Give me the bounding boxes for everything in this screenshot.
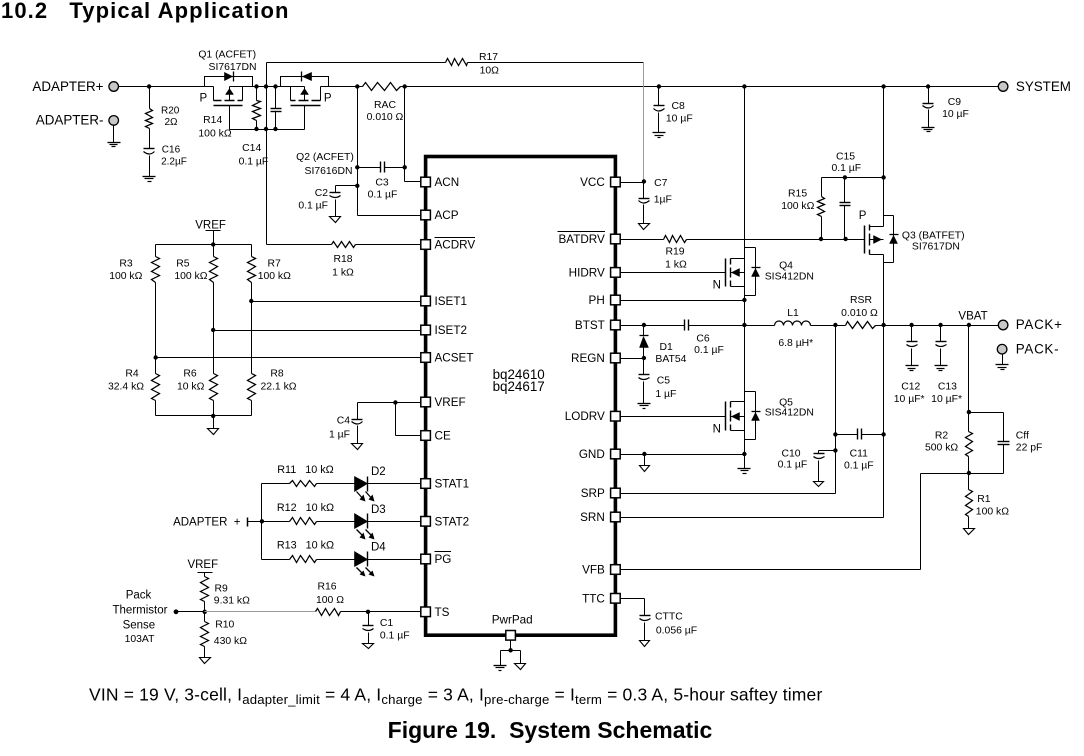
svg-text:ADAPTER+: ADAPTER+ <box>32 79 103 94</box>
svg-text:R10: R10 <box>215 620 234 631</box>
svg-text:0.1 µF: 0.1 µF <box>778 460 808 471</box>
IC pin CE <box>421 430 451 443</box>
svg-text:ADAPTER +: ADAPTER + <box>173 516 241 528</box>
transistor Q5 SIS412DN <box>713 392 814 440</box>
svg-text:100 kΩ: 100 kΩ <box>109 271 142 282</box>
wire rail RAC to SYSTEM <box>401 84 999 88</box>
section title <box>1 0 290 23</box>
schematic conditions caption <box>89 685 822 708</box>
svg-text:L1: L1 <box>787 308 799 319</box>
wire TS net <box>177 610 421 614</box>
svg-text:ACN: ACN <box>435 176 460 189</box>
transistor Q2 (ACFET) SI7616DN <box>281 72 354 178</box>
svg-text:P: P <box>199 93 207 105</box>
capacitor C1 <box>363 612 410 644</box>
resistor R14 <box>198 87 260 140</box>
svg-text:SRP: SRP <box>581 487 605 500</box>
wire ACDRV vertical from gate line <box>266 63 268 245</box>
capacitor C15 <box>831 151 861 239</box>
resistor R12 10 kΩ <box>262 502 355 525</box>
svg-text:VFB: VFB <box>582 564 605 577</box>
inductor L1 6.8uH <box>745 308 846 349</box>
resistor R20 <box>146 87 180 149</box>
svg-text:C2: C2 <box>315 188 329 199</box>
capacitor C9 <box>923 87 969 128</box>
resistor R9 <box>201 577 251 612</box>
wire C15 top link <box>822 175 886 179</box>
wire REGN net <box>621 356 647 360</box>
svg-text:R6: R6 <box>183 369 197 380</box>
IC pin PG <box>421 552 452 567</box>
svg-text:R1: R1 <box>977 494 991 505</box>
svg-text:Cff: Cff <box>1016 431 1029 442</box>
svg-text:C13: C13 <box>938 382 957 393</box>
wire ADAPTER+ rail to Q1 <box>119 84 214 88</box>
svg-text:Q2 (ACFET): Q2 (ACFET) <box>296 152 354 163</box>
svg-text:VCC: VCC <box>580 176 605 189</box>
ground at PwrPad (signal) <box>515 664 526 670</box>
svg-text:6.8 µH*: 6.8 µH* <box>778 338 813 349</box>
svg-text:C14: C14 <box>242 143 261 154</box>
wire HIDRV net <box>621 272 726 274</box>
capacitor C14 <box>239 87 282 168</box>
wire BATDRV net <box>621 237 865 241</box>
svg-text:Q3 (BATFET): Q3 (BATFET) <box>902 230 965 241</box>
wire divider bottom bus <box>156 414 252 429</box>
svg-text:STAT2: STAT2 <box>435 515 470 528</box>
svg-text:Q1 (ACFET): Q1 (ACFET) <box>198 50 256 61</box>
svg-text:C7: C7 <box>654 178 668 189</box>
IC pin HIDRV <box>569 266 621 279</box>
ground at ADAPTER- <box>108 126 121 147</box>
svg-text:ACP: ACP <box>435 209 459 222</box>
capacitor Cff <box>969 413 1043 474</box>
capacitor C4 <box>329 403 363 444</box>
svg-text:Typical Application: Typical Application <box>69 0 289 23</box>
node VREF at R9 <box>187 559 218 577</box>
svg-text:C1: C1 <box>380 618 394 629</box>
figure caption <box>388 717 713 743</box>
svg-text:Thermistor: Thermistor <box>113 605 168 617</box>
IC pin VCC <box>580 176 620 189</box>
ground at C2 <box>330 217 341 223</box>
svg-text:SIS412DN: SIS412DN <box>765 271 814 282</box>
wire CE tie to VREF <box>396 403 421 436</box>
terminal PACK+ <box>998 317 1062 332</box>
resistor RAC 0.010 ohm <box>363 83 404 123</box>
IC pin ACSET <box>421 352 474 365</box>
svg-text:22 pF: 22 pF <box>1016 443 1043 454</box>
svg-text:C15: C15 <box>836 151 855 162</box>
svg-text:C12: C12 <box>901 382 920 393</box>
IC pin ACN <box>421 176 459 189</box>
capacitor C11 <box>836 429 884 472</box>
IC pin ISET2 <box>421 324 467 337</box>
svg-text:R2: R2 <box>935 431 949 442</box>
svg-text:0.1 µF: 0.1 µF <box>368 189 398 200</box>
svg-text:100 kΩ: 100 kΩ <box>976 507 1009 518</box>
LED D3 <box>355 504 421 540</box>
ground at C5 <box>638 404 651 409</box>
diode D1 BAT54 <box>640 326 687 366</box>
svg-text:1 kΩ: 1 kΩ <box>332 268 354 279</box>
node Pack Thermistor Sense <box>113 590 179 646</box>
svg-text:STAT1: STAT1 <box>435 478 470 491</box>
ground at CTTC <box>640 641 650 647</box>
svg-text:103AT: 103AT <box>125 634 155 645</box>
resistor R5 <box>174 245 217 331</box>
resistor R3 <box>109 245 159 358</box>
svg-text:100 Ω: 100 Ω <box>316 595 344 606</box>
ground at C1 <box>363 644 374 649</box>
resistor R16 <box>316 582 345 616</box>
svg-text:D2: D2 <box>371 466 386 478</box>
capacitor CTTC <box>621 599 698 641</box>
svg-text:R13 10 kΩ: R13 10 kΩ <box>277 540 334 552</box>
svg-text:1 µF: 1 µF <box>329 430 350 441</box>
svg-text:100 kΩ: 100 kΩ <box>174 271 207 282</box>
IC pin STAT2 <box>421 515 469 528</box>
svg-text:1µF: 1µF <box>654 195 672 206</box>
svg-text:VREF: VREF <box>195 219 226 231</box>
svg-text:PwrPad: PwrPad <box>492 614 533 627</box>
resistor R18 <box>267 242 421 279</box>
node VREF label <box>195 219 226 244</box>
svg-text:BATDRV: BATDRV <box>558 233 605 246</box>
resistor R13 10 kΩ <box>262 540 355 563</box>
svg-text:VREF: VREF <box>187 559 218 571</box>
wire rail Q2 to RAC <box>321 84 363 88</box>
terminal ADAPTER- <box>36 113 119 128</box>
svg-text:1 µF: 1 µF <box>655 389 676 400</box>
ground at R10 <box>200 658 211 664</box>
node VBAT <box>958 310 987 322</box>
capacitor C3 <box>358 162 405 201</box>
capacitor C16 <box>144 145 187 177</box>
svg-text:Sense: Sense <box>123 620 156 632</box>
wire LED supply bus <box>248 484 265 560</box>
wire SRP net <box>621 326 838 494</box>
svg-text:C16: C16 <box>162 145 181 156</box>
svg-text:2.2µF: 2.2µF <box>161 157 187 168</box>
IC pin TTC <box>582 592 620 605</box>
svg-text:R4: R4 <box>125 369 139 380</box>
svg-text:REGN: REGN <box>571 352 605 365</box>
resistor R4 <box>108 358 160 416</box>
svg-text:SYSTEM: SYSTEM <box>1016 79 1071 94</box>
svg-text:100 kΩ: 100 kΩ <box>258 271 291 282</box>
svg-text:SIS412DN: SIS412DN <box>765 408 814 419</box>
wire VBAT to R2 <box>967 326 971 415</box>
svg-text:10.2: 10.2 <box>1 0 48 23</box>
IC pin PwrPad <box>492 614 533 641</box>
IC pin ACP <box>421 209 459 222</box>
svg-text:SI7617DN: SI7617DN <box>209 62 257 73</box>
svg-text:SI7616DN: SI7616DN <box>305 166 353 177</box>
IC pin ISET1 <box>421 295 467 308</box>
ground at C10 <box>814 482 824 487</box>
ground at divider <box>208 429 219 435</box>
svg-text:bq24617: bq24617 <box>493 379 545 394</box>
svg-text:10 µF: 10 µF <box>942 109 969 120</box>
wire VFB net <box>621 474 969 570</box>
svg-text:10 µF*: 10 µF* <box>894 394 925 405</box>
resistor R2 <box>925 413 972 476</box>
wire PwrPad grounds <box>501 641 521 666</box>
IC pin SRP <box>581 487 620 500</box>
capacitor C8 <box>654 87 693 133</box>
svg-text:R17: R17 <box>479 52 498 63</box>
resistor R7 <box>248 245 292 302</box>
svg-text:C11: C11 <box>850 449 869 460</box>
svg-text:GND: GND <box>579 448 605 461</box>
svg-text:R14: R14 <box>203 115 222 126</box>
svg-text:RSR: RSR <box>850 295 872 306</box>
svg-text:VREF: VREF <box>435 396 466 409</box>
svg-text:R8: R8 <box>270 369 284 380</box>
IC pin TS <box>421 606 450 619</box>
capacitor C5 <box>639 359 677 404</box>
resistor R1 <box>966 474 1010 529</box>
svg-text:P: P <box>324 93 332 105</box>
svg-text:ACDRV: ACDRV <box>435 239 476 252</box>
svg-text:P: P <box>859 210 867 222</box>
resistor RSR 0.010 ohm <box>833 295 998 329</box>
resistor R15 <box>781 178 824 240</box>
resistor R6 <box>177 331 218 416</box>
svg-text:PACK+: PACK+ <box>1016 317 1063 332</box>
svg-text:0.1 µF: 0.1 µF <box>694 345 724 356</box>
wire SRN net <box>621 326 886 518</box>
ground at GND pin <box>640 466 650 472</box>
IC U1 bq24610 body <box>426 157 616 636</box>
svg-text:LODRV: LODRV <box>565 410 605 423</box>
svg-text:RAC: RAC <box>374 100 396 111</box>
svg-text:R11 10 kΩ: R11 10 kΩ <box>277 464 333 476</box>
svg-text:R12 10 kΩ: R12 10 kΩ <box>277 502 334 514</box>
svg-text:D4: D4 <box>371 542 386 554</box>
svg-text:ACSET: ACSET <box>435 352 474 365</box>
wire GND net <box>621 452 745 466</box>
resistor R10 <box>201 612 248 658</box>
svg-text:0.010 Ω: 0.010 Ω <box>841 308 878 319</box>
resistor R17 <box>267 52 644 77</box>
svg-text:PG: PG <box>435 553 452 566</box>
IC pin VFB <box>582 564 620 577</box>
svg-text:10 µF*: 10 µF* <box>931 394 962 405</box>
capacitor C6 <box>685 320 724 356</box>
svg-text:0.1 µF: 0.1 µF <box>380 631 410 642</box>
ground at C4 <box>352 444 363 450</box>
svg-text:ISET1: ISET1 <box>435 295 467 308</box>
svg-text:HIDRV: HIDRV <box>569 266 605 279</box>
svg-text:SRN: SRN <box>580 511 605 524</box>
svg-text:R18: R18 <box>333 254 352 265</box>
svg-text:R19: R19 <box>665 247 684 258</box>
svg-text:10 µF: 10 µF <box>666 114 693 125</box>
svg-text:C4: C4 <box>337 416 351 427</box>
svg-text:Pack: Pack <box>126 590 152 602</box>
ground at C12 <box>906 366 919 371</box>
svg-text:0.1 µF: 0.1 µF <box>298 201 328 212</box>
svg-text:2Ω: 2Ω <box>165 117 179 128</box>
svg-text:C10: C10 <box>781 449 800 460</box>
svg-text:CTTC: CTTC <box>655 612 683 623</box>
resistor R11 10 kΩ <box>262 464 355 487</box>
ground at C9 <box>922 128 935 132</box>
ground at C16 <box>143 177 156 182</box>
svg-text:CE: CE <box>435 430 451 443</box>
svg-text:R7: R7 <box>268 259 282 270</box>
svg-text:ISET2: ISET2 <box>435 324 467 337</box>
ground at Q5 source <box>738 455 751 474</box>
svg-text:Q4: Q4 <box>779 261 793 272</box>
capacitor C12 <box>894 326 925 406</box>
wire R17 line down to VCC (grey) <box>643 63 645 182</box>
svg-text:10 kΩ: 10 kΩ <box>177 382 205 393</box>
transistor Q1 (ACFET) SI7617DN <box>198 50 256 130</box>
svg-text:22.1 kΩ: 22.1 kΩ <box>260 382 296 393</box>
ground at C7 <box>639 224 650 230</box>
svg-text:500 kΩ: 500 kΩ <box>925 443 958 454</box>
svg-text:0.010 Ω: 0.010 Ω <box>367 112 404 123</box>
IC pin GND <box>579 448 620 461</box>
svg-text:R16: R16 <box>317 582 336 593</box>
svg-text:BTST: BTST <box>575 319 605 332</box>
wire ACSET <box>154 355 421 359</box>
IC pin PH <box>589 294 621 307</box>
ground at PACK- <box>996 355 1009 370</box>
transistor Q4 SIS412DN <box>713 248 814 296</box>
wire VREF pin net <box>358 400 421 404</box>
svg-text:C8: C8 <box>672 101 686 112</box>
IC pin LODRV <box>565 410 620 423</box>
terminal ADAPTER + (LED supply) <box>173 516 247 528</box>
svg-text:10Ω: 10Ω <box>480 66 500 77</box>
svg-text:C9: C9 <box>948 97 962 108</box>
IC pin SRN <box>580 511 620 524</box>
wire Q1/Q2 common source link <box>230 84 305 88</box>
LED D2 <box>355 466 421 502</box>
terminal ADAPTER+ <box>32 79 118 94</box>
terminal PACK- <box>997 341 1059 356</box>
wire LODRV net <box>621 416 726 418</box>
svg-text:100 kΩ: 100 kΩ <box>198 129 231 140</box>
IC pin BATDRV <box>558 232 621 247</box>
svg-text:C5: C5 <box>657 375 671 386</box>
svg-text:TS: TS <box>435 606 450 619</box>
svg-text:BAT54: BAT54 <box>655 354 686 365</box>
svg-text:0.1 µF: 0.1 µF <box>239 157 269 168</box>
svg-text:9.31 kΩ: 9.31 kΩ <box>214 595 250 606</box>
svg-text:C6: C6 <box>696 334 710 345</box>
svg-text:D3: D3 <box>371 504 386 516</box>
svg-text:R15: R15 <box>788 189 807 200</box>
IC pin ACDRV <box>421 238 476 252</box>
LED D4 <box>355 542 421 577</box>
IC pin VREF <box>421 396 466 409</box>
ground at PwrPad (earth) <box>494 666 507 671</box>
svg-text:N: N <box>713 279 721 291</box>
capacitor C13 <box>931 326 962 406</box>
wire ISET2 <box>211 328 421 332</box>
svg-text:Figure 19. System Schematic: Figure 19. System Schematic <box>388 717 713 743</box>
svg-text:0.056 µF: 0.056 µF <box>656 626 697 637</box>
svg-text:0.1 µF: 0.1 µF <box>831 163 861 174</box>
svg-text:R3: R3 <box>119 259 133 270</box>
svg-text:32.4 kΩ: 32.4 kΩ <box>108 382 144 393</box>
capacitor C10 <box>778 449 836 482</box>
resistor R19 <box>664 236 687 271</box>
capacitor C2 <box>298 186 357 217</box>
IC pin STAT1 <box>421 478 469 491</box>
svg-text:R5: R5 <box>176 259 190 270</box>
svg-text:PH: PH <box>589 294 605 307</box>
ground at C13 <box>935 366 948 371</box>
svg-text:N: N <box>713 424 721 436</box>
svg-text:D1: D1 <box>660 342 674 353</box>
wire ACN net <box>403 87 421 182</box>
wire switch-node vertical <box>742 87 746 457</box>
svg-text:100 kΩ: 100 kΩ <box>781 201 814 212</box>
wire ACP net <box>355 87 420 216</box>
svg-text:ADAPTER-: ADAPTER- <box>36 113 104 128</box>
svg-text:R20: R20 <box>161 106 180 117</box>
svg-text:R9: R9 <box>215 584 229 595</box>
terminal SYSTEM <box>998 79 1071 94</box>
wire VREF bus <box>156 242 252 246</box>
svg-text:1 kΩ: 1 kΩ <box>665 259 687 270</box>
svg-text:VIN = 19 V, 3-cell, Iadapter_l: VIN = 19 V, 3-cell, Iadapter_limit = 4 A… <box>89 685 822 708</box>
wire ISET1 <box>249 299 420 303</box>
IC pin BTST <box>575 319 620 332</box>
capacitor C7 <box>621 178 672 224</box>
ground at R1 <box>964 529 975 535</box>
svg-text:VBAT: VBAT <box>958 310 987 322</box>
svg-text:C3: C3 <box>375 178 389 189</box>
wire PH net <box>621 298 747 302</box>
IC pin REGN <box>571 352 620 365</box>
svg-text:PACK-: PACK- <box>1016 341 1059 356</box>
svg-text:430 kΩ: 430 kΩ <box>214 636 247 647</box>
svg-text:TTC: TTC <box>582 592 605 605</box>
transistor Q3 (BATFET) SI7617DN <box>859 87 965 326</box>
resistor R8 <box>248 302 297 416</box>
ground at C8 <box>653 133 666 138</box>
svg-text:0.1 µF: 0.1 µF <box>844 461 874 472</box>
wire gate line Q1-Q2 <box>230 127 305 131</box>
wire BTST row <box>621 323 745 327</box>
svg-text:SI7617DN: SI7617DN <box>912 241 960 252</box>
